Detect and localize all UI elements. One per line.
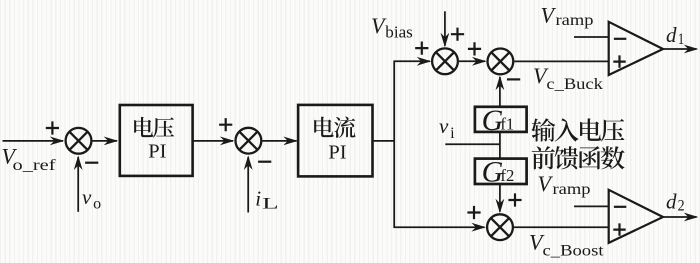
node summing junction J5 bbox=[487, 214, 513, 240]
svg-text:bias: bias bbox=[385, 22, 413, 41]
plus sign Boost comparator bbox=[613, 223, 625, 235]
svg-text:v: v bbox=[439, 114, 449, 138]
svg-text:f1: f1 bbox=[500, 115, 514, 134]
svg-text:V: V bbox=[541, 2, 557, 27]
wire d1 output bbox=[663, 48, 697, 50]
plus sign at J3 left bbox=[415, 42, 428, 55]
wire J2 to current PI bbox=[262, 140, 296, 142]
wire Vramp top input bbox=[574, 36, 609, 38]
node summing junction J3 bbox=[432, 48, 458, 74]
wire branch to J3 bbox=[394, 60, 430, 62]
wire Vramp bottom input bbox=[574, 205, 609, 207]
block current PI bbox=[298, 105, 372, 176]
svg-text:PI: PI bbox=[148, 141, 166, 163]
wire vo feedback bbox=[77, 157, 79, 212]
svg-text:ramp: ramp bbox=[553, 181, 591, 198]
wire voltage PI to J2 bbox=[193, 140, 233, 142]
label voltage PI text bbox=[134, 117, 174, 138]
wire Gf1-Gf2 link bbox=[499, 132, 501, 159]
wire input Vo_ref bbox=[3, 140, 64, 142]
svg-text:f2: f2 bbox=[500, 166, 514, 185]
label feedforward line2 bbox=[532, 146, 625, 169]
plus sign Vbias input bbox=[451, 28, 464, 41]
wire Gf1 to J4 bbox=[499, 77, 501, 106]
minus sign at J2 feedback bbox=[258, 161, 271, 163]
plus sign at J4 left bbox=[468, 42, 481, 55]
plus sign at J1 input bbox=[46, 121, 59, 134]
wire vi input bbox=[445, 143, 500, 145]
wire d2 output bbox=[663, 216, 697, 218]
node summing junction J4 bbox=[488, 49, 514, 75]
svg-text:i: i bbox=[450, 125, 455, 142]
svg-text:c_Buck: c_Buck bbox=[546, 76, 603, 93]
minus sign Buck comparator bbox=[614, 38, 626, 40]
wire J4 to Buck comparator bbox=[514, 60, 608, 62]
wire current PI output to branch bbox=[373, 140, 396, 142]
plus sign at J5 left bbox=[467, 206, 480, 219]
svg-text:1: 1 bbox=[678, 31, 685, 48]
svg-text:L: L bbox=[262, 196, 279, 213]
wire J3 to J4 bbox=[459, 60, 485, 62]
svg-text:ramp: ramp bbox=[556, 12, 594, 29]
block Gf1 bbox=[475, 107, 527, 132]
wire Vbias drop bbox=[444, 11, 446, 46]
node summing junction J2 bbox=[236, 128, 262, 154]
op-amp Boost comparator bbox=[609, 190, 663, 243]
svg-text:PI: PI bbox=[328, 141, 346, 163]
wire J5 to Boost comparator bbox=[514, 226, 609, 228]
svg-text:c_Boost: c_Boost bbox=[543, 243, 605, 260]
wire iL feedback bbox=[247, 157, 249, 213]
wire branch vertical bbox=[393, 61, 395, 229]
minus sign Boost comparator bbox=[614, 206, 626, 208]
block voltage PI bbox=[120, 105, 193, 176]
wire branch to J5 bbox=[394, 226, 484, 228]
svg-text:i: i bbox=[255, 186, 261, 210]
label current PI text bbox=[314, 116, 355, 137]
op-amp Buck comparator bbox=[609, 22, 663, 75]
wire Gf2 to J5 bbox=[499, 184, 501, 212]
plus sign at J2 input bbox=[219, 118, 232, 131]
svg-text:d: d bbox=[666, 190, 677, 214]
node summing junction J1 bbox=[66, 128, 92, 154]
svg-text:o_ref: o_ref bbox=[13, 157, 57, 174]
label feedforward line1 bbox=[531, 118, 624, 141]
svg-text:o: o bbox=[93, 196, 101, 213]
plus sign at J5 top bbox=[508, 193, 521, 206]
svg-text:V: V bbox=[538, 171, 554, 196]
svg-text:v: v bbox=[82, 185, 92, 209]
minus sign at J1 feedback bbox=[85, 162, 98, 164]
svg-text:2: 2 bbox=[678, 198, 685, 215]
block Gf2 bbox=[475, 159, 527, 184]
wire J1 to voltage PI bbox=[92, 140, 117, 142]
svg-text:d: d bbox=[666, 23, 677, 47]
plus sign Buck comparator bbox=[613, 55, 625, 67]
minus sign at J4 bottom bbox=[507, 78, 520, 80]
